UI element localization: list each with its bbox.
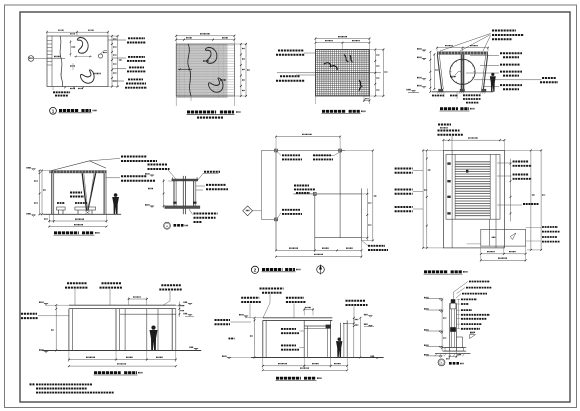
svg-text:1: 1 bbox=[52, 109, 55, 114]
svg-text:2: 2 bbox=[254, 268, 257, 273]
